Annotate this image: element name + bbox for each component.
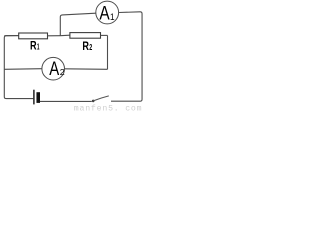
svg-text:R: R (82, 39, 89, 53)
wire: mid-right vertical (R2 down to A2 row) (107, 35, 109, 69)
resistor R2 box (70, 33, 101, 39)
svg-text:R: R (30, 39, 37, 53)
svg-text:1: 1 (110, 12, 115, 22)
ammeter A2 circle (42, 57, 65, 80)
resistor R1 box (19, 33, 48, 39)
ammeter A1 circle (96, 1, 119, 24)
svg-text:A: A (49, 59, 59, 80)
svg-text:2: 2 (89, 43, 92, 52)
svg-text:manfen5. com: manfen5. com (74, 103, 143, 111)
wire: left vertical rail with corners (4, 36, 33, 99)
wire: junction node to R2 (60, 34, 70, 37)
wire: battery to switch pivot (40, 100, 92, 102)
switch pivot dot (92, 100, 95, 103)
switch lever (open) (93, 96, 109, 101)
wire: switch to bottom right corner, right rail, top right to ammeter A1 (111, 12, 142, 101)
svg-text:1: 1 (37, 43, 40, 52)
wire: ammeter A1 to top left corner and junction vertical down to node between R1 and R2 (60, 13, 96, 36)
wire: A2 row right segment (65, 68, 108, 71)
svg-text:2: 2 (60, 67, 65, 77)
wire: R1 to junction node (48, 35, 61, 37)
battery thin plate (long terminal) (33, 90, 35, 105)
battery thick plate (short terminal) (36, 92, 40, 103)
wire: R2 to right branch corner (101, 34, 108, 36)
wire: R1 row left (4, 35, 18, 37)
wire: A2 row left segment (4, 68, 42, 71)
svg-text:A: A (99, 3, 110, 25)
